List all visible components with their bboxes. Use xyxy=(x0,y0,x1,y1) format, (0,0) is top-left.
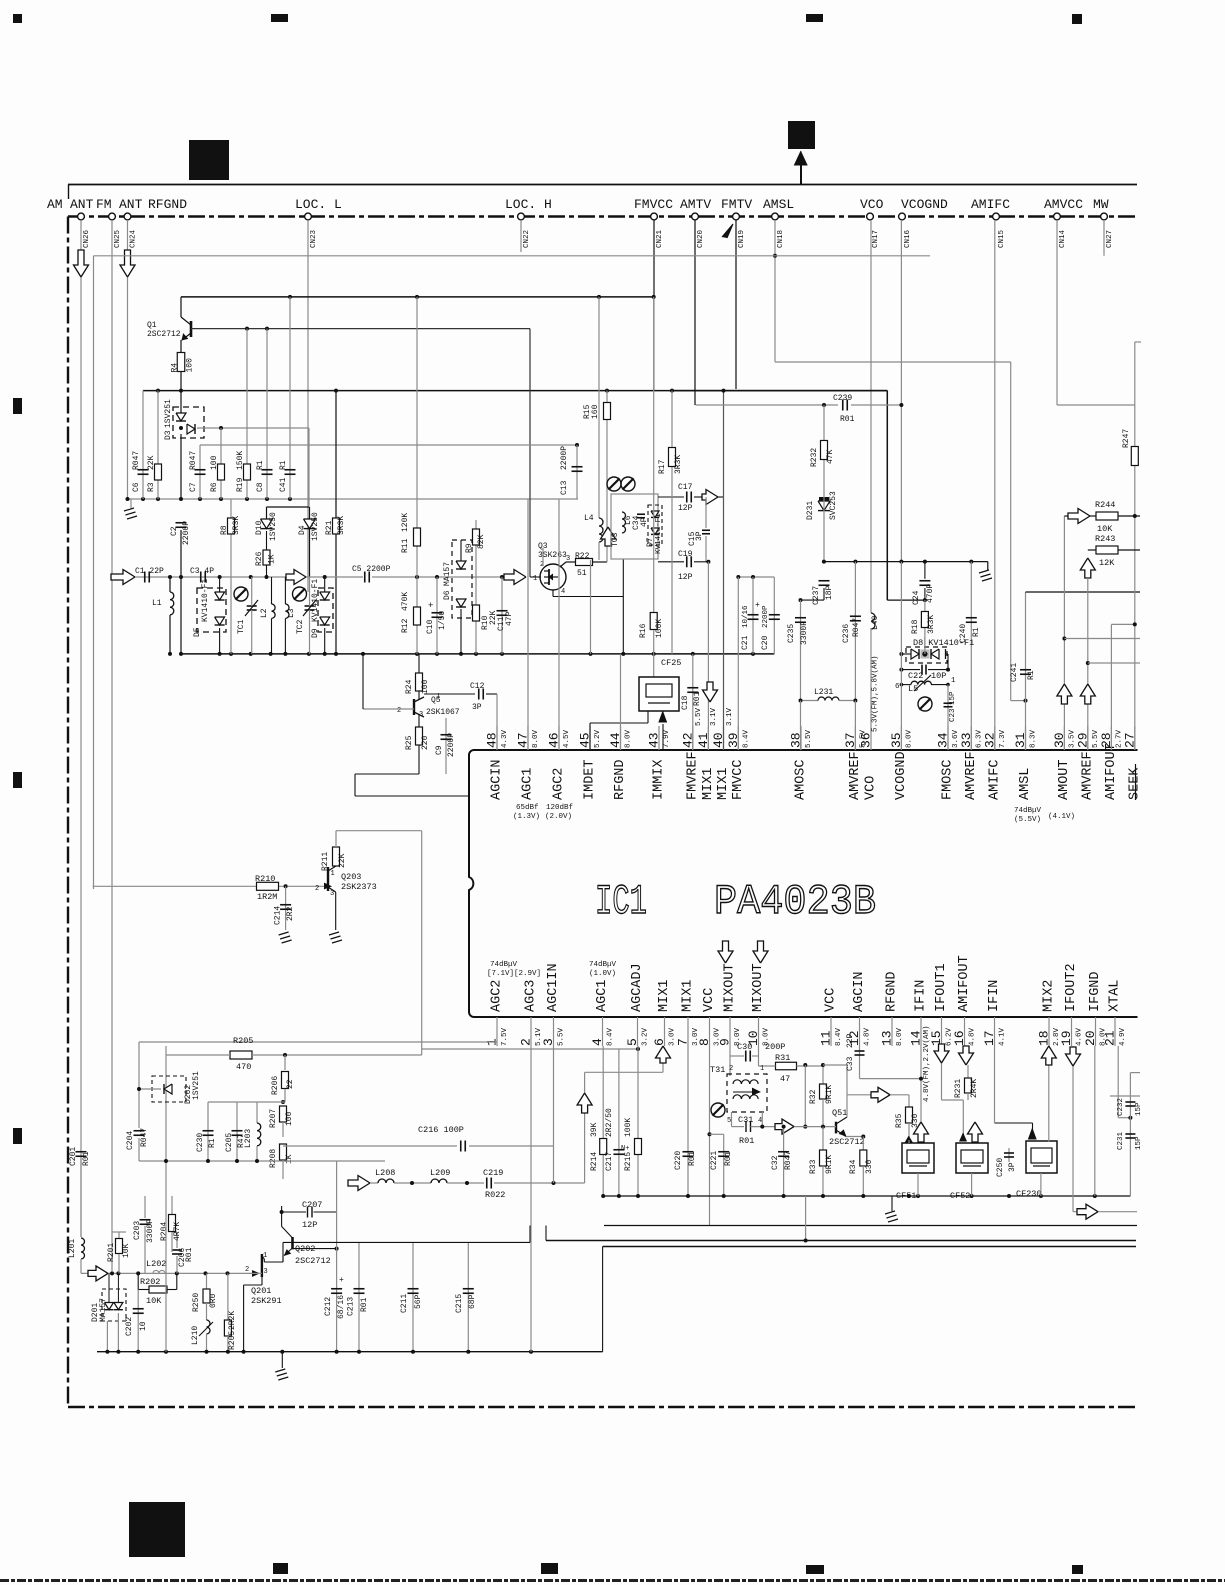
svg-text:2200P: 2200P xyxy=(447,733,456,757)
fiducial square bottom-left xyxy=(129,1502,185,1557)
svg-text:C219: C219 xyxy=(483,1168,503,1178)
capacitor C236 R047 xyxy=(854,562,856,701)
svg-text:FMOSC: FMOSC xyxy=(941,759,956,800)
pin 20 IFGND xyxy=(1095,1017,1097,1046)
svg-text:N+: N+ xyxy=(621,1145,629,1153)
svg-text:L208: L208 xyxy=(375,1168,395,1178)
ceramic filter CF51 xyxy=(902,1143,934,1173)
svg-text:R11: R11 xyxy=(401,538,410,553)
svg-text:220: 220 xyxy=(421,735,430,750)
bottom dash-dot border xyxy=(68,1406,1136,1408)
svg-text:12P: 12P xyxy=(678,504,693,513)
svg-text:56P: 56P xyxy=(414,1294,423,1309)
svg-text:4.8V: 4.8V xyxy=(969,1027,977,1046)
svg-text:C41: C41 xyxy=(279,477,288,492)
capacitor C230 R1 xyxy=(207,1102,209,1161)
capacitor C21 10/16 xyxy=(752,577,754,654)
pin 39 FMVCC xyxy=(737,726,739,750)
svg-text:1SV250: 1SV250 xyxy=(269,512,278,541)
signal arrow pin29 xyxy=(1080,684,1095,704)
svg-text:C20: C20 xyxy=(761,635,770,650)
connector CN24 xyxy=(124,213,131,220)
capacitor C22 10P xyxy=(901,669,920,671)
capacitor C205 R47 xyxy=(236,1102,238,1161)
wire VCOGND x=901.4 down xyxy=(900,562,902,750)
svg-text:AGC2: AGC2 xyxy=(490,980,505,1012)
tank box TC3 L6 C34 D7 xyxy=(611,494,658,559)
svg-text:10K: 10K xyxy=(146,1296,162,1306)
connector CN16 xyxy=(899,213,906,220)
pin 31 AMSL xyxy=(1025,726,1027,750)
svg-text:IFGND: IFGND xyxy=(1088,971,1103,1012)
wire main bus y=653.9 xyxy=(181,653,774,655)
svg-text:L210: L210 xyxy=(191,1326,200,1345)
svg-text:1SV251: 1SV251 xyxy=(192,1071,201,1100)
svg-text:9R1K: 9R1K xyxy=(825,1085,834,1104)
pin 4 AGC1 xyxy=(602,1017,604,1046)
registration mark bottom x=806 xyxy=(806,1565,824,1574)
svg-text:D10: D10 xyxy=(255,520,264,535)
svg-text:21: 21 xyxy=(1103,1030,1118,1046)
resistor R33 9R1K xyxy=(822,1127,824,1150)
svg-text:R215: R215 xyxy=(624,1152,633,1171)
svg-text:3.1V: 3.1V xyxy=(710,707,718,726)
svg-text:R24: R24 xyxy=(405,679,414,694)
svg-text:2SK2373: 2SK2373 xyxy=(341,882,377,892)
resistor R35 330 xyxy=(908,1095,910,1107)
wire xtal top elbow xyxy=(1130,1072,1140,1074)
signal arrow pin16 down xyxy=(959,1046,974,1065)
wire AGC top rail y=1042 xyxy=(139,1041,497,1043)
registration mark left y=1128 xyxy=(13,1128,22,1144)
svg-text:470: 470 xyxy=(236,1062,251,1072)
wire CN25 FM ANT down xyxy=(111,220,113,1271)
svg-text:3: 3 xyxy=(330,890,334,898)
svg-text:FMVCC: FMVCC xyxy=(731,759,746,800)
svg-text:C6: C6 xyxy=(132,482,141,492)
svg-text:L209: L209 xyxy=(430,1168,450,1178)
svg-text:10/16: 10/16 xyxy=(742,605,750,628)
svg-text:R250: R250 xyxy=(192,1293,201,1312)
svg-text:R231: R231 xyxy=(954,1079,963,1098)
resistor R25 220 xyxy=(418,714,420,727)
wire R210 row xyxy=(93,885,324,887)
svg-text:R01: R01 xyxy=(82,1151,91,1166)
capacitor C206 R01 xyxy=(176,1232,178,1248)
svg-text:R01: R01 xyxy=(688,1151,697,1166)
svg-text:Q51: Q51 xyxy=(832,1108,847,1118)
svg-text:2SK291: 2SK291 xyxy=(251,1296,282,1306)
svg-text:C5 2200P: C5 2200P xyxy=(352,565,391,574)
svg-text:8.0V: 8.0V xyxy=(905,729,913,748)
pin 9 MIXOUT xyxy=(729,1017,731,1046)
svg-text:AMSL: AMSL xyxy=(1018,768,1033,800)
capacitor C8 R1 xyxy=(266,329,268,499)
svg-text:22: 22 xyxy=(286,1079,295,1089)
wire CN14 AMVCC down xyxy=(1056,220,1058,405)
svg-text:MIXOUT: MIXOUT xyxy=(723,963,738,1012)
svg-text:65dBf: 65dBf xyxy=(516,804,539,812)
wire Q5 out down xyxy=(354,774,356,796)
svg-text:AMTV: AMTV xyxy=(680,197,711,212)
svg-text:3R3K: 3R3K xyxy=(337,516,346,535)
svg-text:+: + xyxy=(339,1276,344,1285)
svg-text:4: 4 xyxy=(590,1038,605,1046)
wire riser x=602.6 xyxy=(602,1247,604,1352)
signal arrow down right of C18 xyxy=(703,682,718,702)
svg-text:C220: C220 xyxy=(674,1151,683,1170)
resistor R6 100 xyxy=(220,445,222,499)
svg-text:PA4023B: PA4023B xyxy=(714,878,876,926)
svg-text:2: 2 xyxy=(519,1038,534,1046)
resistor R10 22K xyxy=(473,605,480,621)
wire pin31 top elbow y=592 xyxy=(1026,591,1141,593)
svg-text:R1: R1 xyxy=(208,1138,217,1148)
svg-text:5: 5 xyxy=(625,1038,640,1046)
svg-text:L3: L3 xyxy=(287,608,296,618)
capacitor C250 3P xyxy=(1008,1148,1010,1162)
capacitor C201 R01 xyxy=(76,1151,87,1153)
svg-text:CN26: CN26 xyxy=(83,229,91,248)
svg-text:AGC1: AGC1 xyxy=(521,768,536,800)
svg-text:2: 2 xyxy=(315,885,319,893)
connector CN27 xyxy=(1101,213,1108,220)
svg-text:SVC253: SVC253 xyxy=(829,491,838,520)
wire AMVCC elbow to x=1134.8 xyxy=(1057,404,1135,406)
top dash-dot border xyxy=(68,215,1137,217)
svg-text:AGC3: AGC3 xyxy=(524,980,539,1012)
capacitor C214 2R2 xyxy=(285,886,287,930)
resistor R207 100 xyxy=(280,1106,287,1122)
svg-text:L201: L201 xyxy=(68,1239,77,1258)
wire pin8 VCC down xyxy=(709,1046,711,1226)
svg-text:+: + xyxy=(755,601,760,610)
svg-text:R01: R01 xyxy=(185,1247,194,1262)
svg-text:18: 18 xyxy=(1037,1030,1052,1046)
svg-text:C33: C33 xyxy=(846,1056,855,1071)
capacitor C18 R01 xyxy=(687,687,698,689)
svg-text:[7.1V][2.9V]: [7.1V][2.9V] xyxy=(487,970,541,978)
svg-text:68/16: 68/16 xyxy=(337,1295,346,1319)
capacitor C10 1/50 xyxy=(436,577,438,654)
inductor L1 xyxy=(169,577,171,592)
svg-text:20: 20 xyxy=(1083,1030,1098,1046)
svg-text:2SK1067: 2SK1067 xyxy=(426,708,460,717)
pin 8 VCC xyxy=(709,1017,711,1046)
svg-text:1K: 1K xyxy=(285,1154,294,1164)
svg-text:R047: R047 xyxy=(132,451,141,470)
svg-text:2200P: 2200P xyxy=(762,605,770,628)
svg-text:C24: C24 xyxy=(912,590,921,605)
bus bottom-middle y=1196 xyxy=(603,1195,1130,1197)
svg-text:2: 2 xyxy=(245,1266,249,1274)
signal arrow CF51 out up xyxy=(914,1122,929,1142)
svg-text:36: 36 xyxy=(859,732,874,748)
svg-text:7: 7 xyxy=(676,1038,691,1046)
svg-text:1: 1 xyxy=(760,1065,764,1073)
diode D4 1SV250 xyxy=(309,507,311,577)
resistor R214 39K xyxy=(600,1139,607,1155)
registration mark left y=398 xyxy=(13,398,22,414)
wire pin30 riser xyxy=(1063,516,1065,750)
svg-text:16: 16 xyxy=(952,1030,967,1046)
capacitor C41 R1 xyxy=(289,297,291,499)
pin 11 VCC xyxy=(830,1017,832,1046)
svg-text:3SK263: 3SK263 xyxy=(538,551,567,560)
wire pin39 riser xyxy=(737,577,739,750)
svg-text:L1: L1 xyxy=(152,599,162,608)
wire pin5 R215 column xyxy=(637,1046,639,1196)
wire Q203 source ground xyxy=(335,892,337,930)
wire pin29 riser xyxy=(1087,578,1089,750)
capacitor C6 R047 xyxy=(142,391,144,499)
capacitor C31 R01 xyxy=(732,1126,745,1128)
svg-text:R01: R01 xyxy=(840,415,855,424)
svg-text:C214: C214 xyxy=(274,906,283,925)
capacitor C20 2200P xyxy=(773,577,775,654)
svg-text:7.9V: 7.9V xyxy=(663,729,671,748)
svg-text:47K: 47K xyxy=(826,449,835,464)
svg-text:IMDET: IMDET xyxy=(583,759,598,800)
wire pin28 elbow xyxy=(1110,624,1112,750)
registration mark top x=806 xyxy=(806,14,823,22)
signal arrow into Q3 xyxy=(504,570,526,585)
wire top rail y=296.9 xyxy=(181,296,654,298)
signal arrow on CN24 line xyxy=(120,250,135,277)
pin 17 IFIN xyxy=(994,1017,996,1046)
resistor R19 150K xyxy=(246,329,248,499)
svg-text:3P: 3P xyxy=(1008,1162,1017,1172)
svg-text:CN23: CN23 xyxy=(310,229,318,248)
svg-text:CF230: CF230 xyxy=(1016,1189,1042,1199)
svg-text:100: 100 xyxy=(210,455,219,470)
svg-text:VCC: VCC xyxy=(824,988,839,1012)
pin 29 AMVREF xyxy=(1087,726,1089,750)
svg-text:3.2V: 3.2V xyxy=(642,1027,650,1046)
svg-text:47: 47 xyxy=(780,1074,790,1084)
svg-text:7.5V: 7.5V xyxy=(501,1027,509,1046)
svg-text:AMVREF: AMVREF xyxy=(964,751,979,800)
svg-text:4: 4 xyxy=(561,588,565,596)
wire Q5 bottom xyxy=(418,745,420,774)
arrow CF25 to pin43 xyxy=(662,724,664,750)
svg-text:AMIFC: AMIFC xyxy=(971,197,1010,212)
svg-text:CN18: CN18 xyxy=(777,230,785,248)
wire gray rail y=499 xyxy=(128,498,579,500)
svg-text:3: 3 xyxy=(541,1038,556,1046)
ground Q203 xyxy=(329,932,339,935)
svg-text:470P: 470P xyxy=(926,584,935,603)
svg-text:8.4V: 8.4V xyxy=(835,1027,843,1046)
svg-text:L4: L4 xyxy=(584,514,594,523)
svg-text:100: 100 xyxy=(285,1111,294,1126)
wire CN23 LOC.L down xyxy=(307,220,309,592)
svg-text:L202: L202 xyxy=(146,1259,166,1269)
capacitor C202 10 xyxy=(137,1290,139,1352)
svg-text:+: + xyxy=(428,601,433,611)
resistor R9 82K xyxy=(475,520,477,654)
svg-text:RFGND: RFGND xyxy=(613,759,628,800)
connector CN14 xyxy=(1054,213,1061,220)
pin 10 MIXOUT xyxy=(758,1017,760,1046)
svg-text:R12: R12 xyxy=(401,618,410,633)
svg-text:C202: C202 xyxy=(125,1317,134,1336)
wire FMTV net y=390.6 xyxy=(672,390,887,392)
pin 27 SEEK xyxy=(1134,726,1136,750)
capacitor C221 R01 xyxy=(710,1133,724,1135)
wire CN18 AMSL down xyxy=(774,220,776,362)
svg-text:C13: C13 xyxy=(560,480,569,495)
svg-text:AMIFOUT: AMIFOUT xyxy=(957,955,972,1012)
svg-text:R208: R208 xyxy=(269,1149,278,1168)
capacitor C24 470P xyxy=(919,580,930,582)
svg-text:4.1V: 4.1V xyxy=(999,1027,1007,1046)
svg-text:R1: R1 xyxy=(1027,670,1036,680)
pin 13 RFGND xyxy=(891,1017,893,1046)
pin 3 AGC1IN xyxy=(553,1017,555,1046)
pin 18 MIX2 xyxy=(1048,1017,1050,1046)
capacitor C215 68P xyxy=(467,1242,469,1351)
svg-text:C32: C32 xyxy=(771,1155,780,1170)
svg-text:C221: C221 xyxy=(710,1151,719,1170)
svg-text:C215: C215 xyxy=(455,1294,464,1313)
svg-text:XTAL: XTAL xyxy=(1108,980,1123,1012)
svg-text:2: 2 xyxy=(397,707,401,715)
pin 41 MIX1 xyxy=(707,726,709,750)
svg-text:AMVCC: AMVCC xyxy=(1044,197,1083,212)
signal arrow pin18 xyxy=(1041,1046,1056,1065)
wire pin21 XTAL xyxy=(1117,1046,1119,1118)
svg-text:C18: C18 xyxy=(681,695,690,710)
capacitor C32 R047 xyxy=(783,1127,785,1196)
signal arrow on AM line xyxy=(74,250,89,277)
wire CN27 MW down xyxy=(1103,220,1105,256)
svg-text:RFGND: RFGND xyxy=(148,197,187,212)
resistor R16 100K xyxy=(653,297,655,612)
svg-text:(5.5V): (5.5V) xyxy=(1014,816,1041,824)
fiducial square B with up arrow xyxy=(788,121,815,149)
signal arrow R244 xyxy=(1068,509,1090,524)
signal arrow up L4 xyxy=(601,527,616,546)
inductor L4 xyxy=(598,297,600,518)
capacitor C23 15P xyxy=(947,685,949,750)
capacitor C204 R047 xyxy=(134,1130,145,1132)
svg-text:L2: L2 xyxy=(260,608,269,618)
svg-text:1: 1 xyxy=(331,870,335,878)
wire pin41 riser xyxy=(707,562,709,750)
svg-text:R25: R25 xyxy=(405,735,414,750)
connector CN23 xyxy=(305,213,312,220)
svg-text:200P: 200P xyxy=(765,1042,785,1052)
resistor R231 2R4K xyxy=(967,1065,969,1078)
pin 6 MIX1 xyxy=(664,1017,666,1046)
svg-text:2SC2712: 2SC2712 xyxy=(295,1256,331,1266)
connector CN17 xyxy=(867,213,874,220)
svg-text:AMIFC: AMIFC xyxy=(987,759,1002,800)
resistor R205 2R2K xyxy=(227,1273,229,1320)
svg-text:7.3V: 7.3V xyxy=(999,729,1007,748)
svg-text:D6: D6 xyxy=(443,590,452,600)
wire black elbow x=887 xyxy=(887,599,925,601)
svg-text:RFGND: RFGND xyxy=(885,971,900,1012)
connector CN26 xyxy=(78,213,85,220)
svg-text:C23: C23 xyxy=(949,708,957,722)
pin 21 XTAL xyxy=(1114,1017,1116,1046)
svg-text:IMMIX: IMMIX xyxy=(652,759,667,800)
svg-text:19: 19 xyxy=(1059,1030,1074,1046)
svg-text:R01: R01 xyxy=(693,691,702,706)
svg-text:10: 10 xyxy=(139,1321,148,1331)
pin 19 IFOUT2 xyxy=(1071,1017,1073,1046)
bus bottom-left y=1351.7 xyxy=(97,1351,603,1353)
svg-text:R1: R1 xyxy=(279,460,288,470)
capacitor C240 R1 xyxy=(970,562,972,750)
svg-text:R01: R01 xyxy=(724,1151,733,1166)
connector CN25 xyxy=(109,213,116,220)
wire CN26 AM ANT down xyxy=(80,220,82,1237)
pin 2 AGC3 xyxy=(530,1017,532,1046)
svg-text:51: 51 xyxy=(577,569,587,578)
svg-text:8.0V: 8.0V xyxy=(625,729,633,748)
wire Q5 gate xyxy=(363,708,414,710)
screw L5 xyxy=(918,697,932,711)
svg-text:VCOGND: VCOGND xyxy=(894,751,909,800)
svg-text:22P: 22P xyxy=(846,1033,855,1048)
wire pin44 riser xyxy=(620,654,622,750)
resistor R17 3R3K xyxy=(671,391,673,654)
pin 32 AMIFC xyxy=(994,726,996,750)
svg-text:R1: R1 xyxy=(256,460,265,470)
svg-text:2SC2712: 2SC2712 xyxy=(829,1137,865,1147)
pin 15 IFOUT1 xyxy=(941,1017,943,1046)
svg-text:2R2: 2R2 xyxy=(286,906,295,921)
cursor arrowhead near CN19 xyxy=(722,224,733,238)
svg-text:IFOUT2: IFOUT2 xyxy=(1064,963,1079,1012)
svg-text:C8: C8 xyxy=(256,482,265,492)
svg-text:R022: R022 xyxy=(485,1190,505,1200)
svg-text:CN21: CN21 xyxy=(656,229,664,248)
svg-text:R205: R205 xyxy=(233,1036,253,1046)
pin 48 AGCIN xyxy=(496,726,498,750)
svg-text:10K: 10K xyxy=(122,1243,131,1258)
svg-text:R01: R01 xyxy=(739,1136,754,1146)
wire CF outputs to bus xyxy=(917,1173,919,1196)
svg-text:L231: L231 xyxy=(814,688,833,697)
svg-text:470K: 470K xyxy=(401,592,410,611)
resistor R208 1K xyxy=(282,1122,284,1137)
svg-text:LOC. L: LOC. L xyxy=(295,197,342,212)
wire pin40 riser x=723.5 xyxy=(723,391,725,750)
capacitor C232 xyxy=(1129,1073,1131,1196)
svg-text:R26: R26 xyxy=(255,551,264,566)
svg-text:4.8V: 4.8V xyxy=(864,1027,872,1046)
svg-text:ANT: ANT xyxy=(70,197,94,212)
wire Q1 base line y=328.6 xyxy=(191,328,530,330)
svg-text:4.9V: 4.9V xyxy=(1119,1027,1127,1046)
capacitor C7 R047 xyxy=(199,445,201,499)
resistor R18 3R3K xyxy=(924,600,926,648)
svg-text:IC1: IC1 xyxy=(595,878,647,926)
svg-text:(1.3V): (1.3V) xyxy=(513,813,540,821)
svg-text:MA157: MA157 xyxy=(443,562,452,586)
capacitor C211 56P xyxy=(412,1242,414,1351)
svg-text:R01: R01 xyxy=(360,1297,369,1312)
svg-text:1K: 1K xyxy=(268,554,277,564)
svg-text:CN19: CN19 xyxy=(738,230,746,248)
svg-text:C237: C237 xyxy=(812,586,821,605)
svg-text:R247: R247 xyxy=(1122,429,1131,448)
capacitor C203 3300P xyxy=(144,1196,146,1218)
